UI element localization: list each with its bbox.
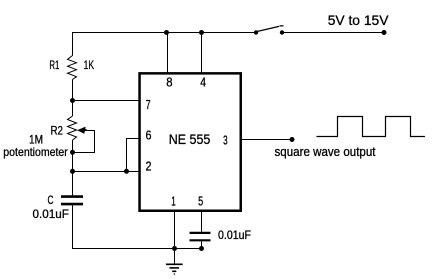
wire pin 2 — [73, 171, 140, 173]
label 1K — [84, 58, 95, 72]
label R1 — [49, 58, 59, 72]
wire R1 bottom to R2 top — [72, 80, 74, 117]
wire pin 4 drop — [201, 33, 203, 73]
wire R2 bottom to capacitor C — [72, 140, 74, 195]
wire pin 6 — [127, 139, 140, 172]
wire R2 wiper — [73, 131, 95, 153]
pin 6 — [146, 127, 152, 142]
svg-text:NE 555: NE 555 — [169, 131, 211, 147]
node C2 ground junction — [199, 246, 204, 251]
wire pin 3 output — [242, 139, 292, 141]
svg-text:6: 6 — [146, 127, 152, 142]
wire pin 1 drop — [174, 212, 176, 249]
svg-text:5: 5 — [198, 194, 203, 209]
wire pin 8 drop — [167, 33, 169, 73]
node pin6 pin2 junction — [124, 169, 129, 174]
resistor R2 potentiometer body — [68, 116, 77, 140]
label NE 555 — [169, 131, 211, 147]
node output terminal — [290, 137, 295, 142]
node switch right terminal — [280, 30, 284, 34]
node supply end terminal — [382, 30, 387, 35]
node pin2 left junction — [70, 169, 75, 174]
wire C2 bottom stem — [201, 241, 203, 248]
wire top rail right of switch — [282, 32, 384, 34]
op-amp U1 NE 555 body — [140, 73, 241, 210]
pin 8 — [166, 75, 172, 90]
svg-text:3: 3 — [223, 132, 228, 147]
svg-text:7: 7 — [146, 97, 151, 112]
svg-text:1: 1 — [171, 194, 176, 209]
node pin4 top junction — [199, 30, 204, 35]
label R2 — [51, 124, 64, 138]
capacitor C2 plates — [190, 233, 211, 240]
wire pin 7 — [73, 100, 140, 102]
ground — [166, 249, 183, 275]
switch S1 arm — [257, 26, 284, 32]
svg-text:8: 8 — [166, 75, 172, 90]
svg-text:R1: R1 — [49, 58, 59, 72]
label 1M — [29, 133, 43, 147]
pin 2 — [146, 159, 152, 174]
node switch left terminal — [254, 30, 258, 34]
pin 3 — [223, 132, 228, 147]
svg-text:R2: R2 — [51, 124, 64, 138]
label potentiometer — [3, 145, 68, 159]
label 0.01uF C1 — [33, 207, 69, 221]
label 5V to 15V — [328, 12, 389, 28]
label C — [48, 195, 54, 207]
svg-text:0.01uF: 0.01uF — [218, 228, 251, 242]
svg-text:potentiometer: potentiometer — [3, 145, 68, 159]
pin 5 — [198, 194, 203, 209]
node ground junction — [172, 246, 177, 251]
wire pin 5 drop — [201, 212, 203, 232]
wire top rail VCC — [72, 32, 256, 34]
capacitor C1 plates — [61, 197, 83, 205]
potentiometer wiper arrow — [77, 127, 87, 134]
svg-text:2: 2 — [146, 159, 152, 174]
resistor R1 — [68, 56, 77, 80]
svg-text:square wave output: square wave output — [275, 144, 376, 159]
wire left rail top — [72, 32, 74, 56]
svg-text:4: 4 — [200, 75, 206, 90]
pin 4 — [200, 75, 206, 90]
svg-text:0.01uF: 0.01uF — [33, 207, 69, 221]
svg-text:C: C — [48, 195, 54, 207]
node wiper return junction — [70, 150, 75, 155]
node R1 R2 pin7 junction — [70, 98, 75, 103]
svg-text:1K: 1K — [84, 58, 95, 72]
label 0.01uF C2 — [218, 228, 251, 242]
wire bottom ground rail — [73, 205, 202, 248]
pin 1 — [171, 194, 176, 209]
label square wave output — [275, 144, 376, 159]
node pin8 top junction — [164, 30, 169, 35]
square wave symbol — [317, 117, 426, 137]
pin 7 — [146, 97, 151, 112]
svg-text:5V to 15V: 5V to 15V — [328, 12, 389, 28]
